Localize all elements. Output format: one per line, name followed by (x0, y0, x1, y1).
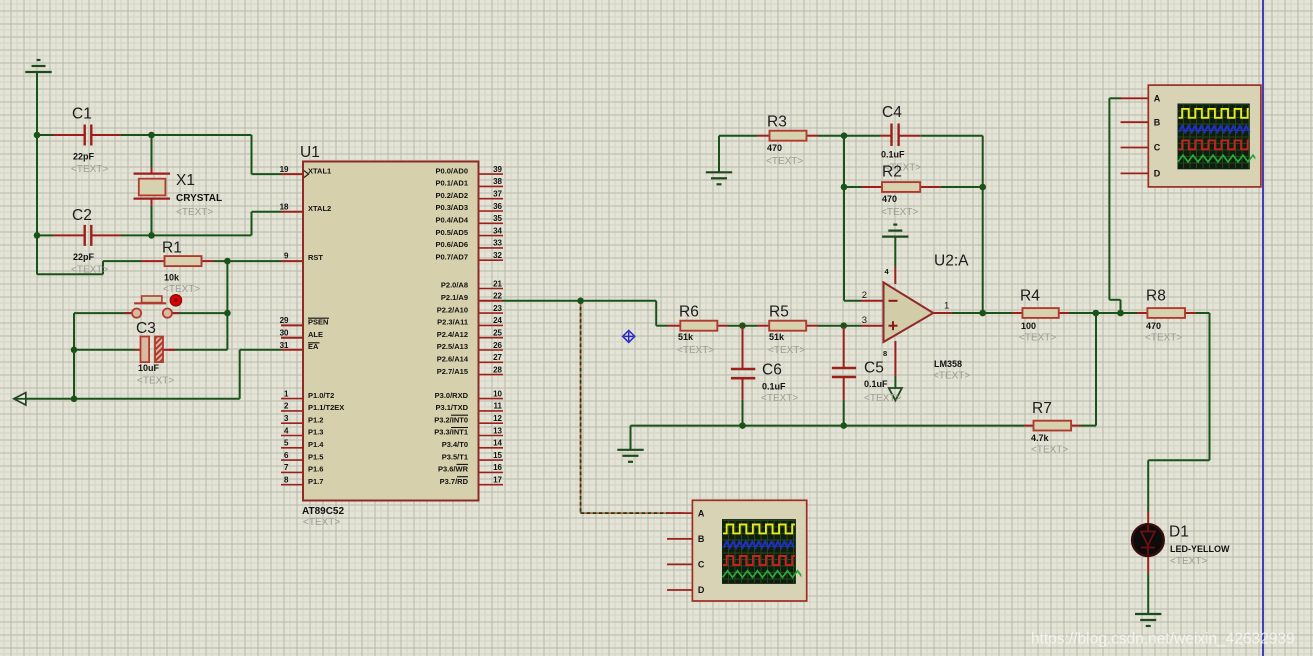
svg-text:<TEXT>: <TEXT> (1170, 556, 1207, 567)
svg-text:5: 5 (284, 439, 289, 448)
svg-text:C3: C3 (136, 320, 156, 337)
svg-text:10k: 10k (164, 273, 180, 283)
svg-text:<TEXT>: <TEXT> (1019, 333, 1056, 344)
svg-text:P0.4/AD4: P0.4/AD4 (435, 216, 468, 225)
svg-text:C1: C1 (72, 106, 92, 123)
svg-text:<TEXT>: <TEXT> (303, 517, 340, 528)
svg-text:B: B (698, 534, 705, 544)
svg-text:P3.5/T1: P3.5/T1 (442, 452, 468, 461)
svg-text:<TEXT>: <TEXT> (1145, 333, 1182, 344)
svg-text:470: 470 (1146, 321, 1161, 331)
svg-text:RST: RST (308, 253, 323, 262)
svg-text:1: 1 (944, 301, 949, 312)
svg-text:P2.4/A12: P2.4/A12 (437, 330, 468, 339)
svg-text:P2.7/A15: P2.7/A15 (437, 367, 468, 376)
svg-text:P2.5/A13: P2.5/A13 (437, 342, 468, 351)
svg-text:2: 2 (284, 402, 289, 411)
svg-text:C6: C6 (762, 362, 782, 379)
svg-text:34: 34 (493, 226, 502, 235)
svg-text:0.1uF: 0.1uF (864, 379, 888, 389)
svg-text:R5: R5 (769, 304, 789, 321)
svg-text:17: 17 (493, 476, 502, 485)
svg-text:P3.0/RXD: P3.0/RXD (435, 391, 469, 400)
svg-text:100: 100 (1021, 321, 1036, 331)
svg-text:P1.4: P1.4 (308, 440, 324, 449)
svg-text:C2: C2 (72, 207, 92, 224)
svg-text:EA: EA (308, 342, 319, 351)
svg-text:19: 19 (280, 165, 289, 174)
svg-text:<TEXT>: <TEXT> (677, 345, 714, 356)
svg-text:P3.6/WR: P3.6/WR (438, 465, 469, 474)
svg-text:36: 36 (493, 202, 502, 211)
svg-text:P1.6: P1.6 (308, 465, 323, 474)
svg-text:ALE: ALE (308, 330, 323, 339)
svg-text:R2: R2 (882, 164, 902, 181)
svg-text:R6: R6 (679, 304, 699, 321)
svg-text:<TEXT>: <TEXT> (766, 156, 803, 167)
svg-text:6: 6 (284, 451, 289, 460)
svg-text:33: 33 (493, 239, 502, 248)
svg-text:4.7k: 4.7k (1031, 433, 1050, 443)
svg-text:<TEXT>: <TEXT> (71, 265, 108, 276)
svg-text:XTAL2: XTAL2 (308, 204, 331, 213)
svg-text:35: 35 (493, 214, 502, 223)
svg-text:8: 8 (284, 476, 289, 485)
svg-text:P0.6/AD6: P0.6/AD6 (435, 240, 468, 249)
svg-text:26: 26 (493, 341, 502, 350)
svg-text:39: 39 (493, 165, 502, 174)
svg-text:21: 21 (493, 279, 502, 288)
svg-text:3: 3 (862, 315, 867, 326)
svg-text:<TEXT>: <TEXT> (933, 371, 970, 382)
svg-text:28: 28 (493, 365, 502, 374)
svg-text:XTAL1: XTAL1 (308, 166, 331, 175)
svg-text:18: 18 (280, 203, 289, 212)
svg-text:24: 24 (493, 316, 502, 325)
svg-text:https://blog.csdn.net/weixin_4: https://blog.csdn.net/weixin_42632939 (1031, 631, 1295, 648)
svg-text:R1: R1 (162, 240, 182, 257)
svg-text:13: 13 (493, 426, 502, 435)
svg-text:51k: 51k (769, 332, 785, 342)
svg-text:U1: U1 (300, 144, 320, 161)
svg-text:<TEXT>: <TEXT> (864, 393, 901, 404)
svg-text:P0.0/AD0: P0.0/AD0 (435, 166, 468, 175)
svg-text:AT89C52: AT89C52 (302, 506, 344, 517)
svg-text:C5: C5 (864, 360, 884, 377)
svg-text:P1.7: P1.7 (308, 477, 323, 486)
svg-text:<TEXT>: <TEXT> (881, 207, 918, 218)
svg-text:10uF: 10uF (138, 363, 160, 373)
svg-text:B: B (1154, 117, 1161, 127)
svg-text:4: 4 (284, 426, 289, 435)
svg-text:P0.2/AD2: P0.2/AD2 (435, 191, 468, 200)
svg-text:22pF: 22pF (73, 152, 95, 162)
svg-text:P2.6/A14: P2.6/A14 (437, 355, 469, 364)
svg-text:37: 37 (493, 190, 502, 199)
svg-text:PSEN: PSEN (308, 318, 328, 327)
svg-text:14: 14 (493, 439, 502, 448)
svg-text:9: 9 (284, 252, 289, 261)
svg-text:P1.0/T2: P1.0/T2 (308, 391, 334, 400)
svg-text:7: 7 (284, 463, 289, 472)
svg-text:470: 470 (767, 143, 782, 153)
svg-text:10: 10 (493, 389, 502, 398)
svg-text:2: 2 (862, 290, 867, 301)
svg-text:0.1uF: 0.1uF (881, 150, 905, 160)
svg-text:22pF: 22pF (73, 252, 95, 262)
svg-text:C4: C4 (882, 104, 902, 121)
svg-text:3: 3 (284, 414, 289, 423)
svg-text:P2.1/A9: P2.1/A9 (441, 293, 468, 302)
svg-text:P0.5/AD5: P0.5/AD5 (435, 228, 468, 237)
svg-text:0.1uF: 0.1uF (762, 382, 786, 392)
svg-text:A: A (698, 508, 705, 518)
svg-text:P1.1/T2EX: P1.1/T2EX (308, 403, 344, 412)
svg-text:51k: 51k (678, 332, 694, 342)
svg-text:<TEXT>: <TEXT> (163, 284, 200, 295)
svg-text:27: 27 (493, 353, 502, 362)
svg-text:P1.3: P1.3 (308, 428, 323, 437)
svg-text:R4: R4 (1020, 288, 1040, 305)
svg-text:P1.5: P1.5 (308, 452, 323, 461)
svg-text:11: 11 (494, 402, 503, 411)
svg-text:A: A (1154, 94, 1161, 104)
svg-text:38: 38 (493, 177, 502, 186)
svg-text:<TEXT>: <TEXT> (71, 164, 108, 175)
svg-text:<TEXT>: <TEXT> (761, 393, 798, 404)
svg-text:15: 15 (493, 451, 502, 460)
svg-text:D: D (698, 585, 705, 595)
svg-text:22: 22 (493, 292, 502, 301)
svg-text:23: 23 (493, 304, 502, 313)
svg-text:8: 8 (883, 349, 887, 358)
svg-text:29: 29 (280, 316, 289, 325)
svg-text:32: 32 (493, 251, 502, 260)
svg-text:LED-YELLOW: LED-YELLOW (1170, 544, 1230, 554)
svg-text:D: D (1154, 169, 1161, 179)
svg-text:P3.3/INT1: P3.3/INT1 (434, 428, 468, 437)
svg-text:16: 16 (493, 463, 502, 472)
svg-text:R7: R7 (1032, 400, 1052, 417)
svg-text:P0.1/AD1: P0.1/AD1 (435, 179, 468, 188)
svg-text:CRYSTAL: CRYSTAL (176, 193, 222, 204)
svg-text:P3.2/INT0: P3.2/INT0 (434, 415, 468, 424)
svg-text:LM358: LM358 (934, 359, 962, 369)
svg-text:P3.4/T0: P3.4/T0 (442, 440, 468, 449)
svg-text:P2.3/A11: P2.3/A11 (437, 318, 468, 327)
svg-text:D1: D1 (1169, 524, 1189, 541)
svg-text:P3.1/TXD: P3.1/TXD (435, 403, 468, 412)
svg-text:1: 1 (284, 389, 289, 398)
svg-text:31: 31 (280, 341, 289, 350)
svg-text:C: C (698, 560, 705, 570)
svg-text:470: 470 (882, 194, 897, 204)
svg-text:U2:A: U2:A (934, 253, 969, 270)
svg-text:P1.2: P1.2 (308, 415, 323, 424)
svg-text:30: 30 (280, 329, 289, 338)
svg-text:25: 25 (493, 329, 502, 338)
svg-text:C: C (1154, 143, 1161, 153)
svg-text:P3.7/RD: P3.7/RD (440, 477, 469, 486)
svg-text:P2.2/A10: P2.2/A10 (437, 305, 468, 314)
svg-text:12: 12 (493, 414, 502, 423)
svg-text:<TEXT>: <TEXT> (1031, 445, 1068, 456)
svg-text:X1: X1 (176, 172, 195, 189)
svg-text:P0.7/AD7: P0.7/AD7 (435, 252, 468, 261)
svg-text:R3: R3 (767, 114, 787, 131)
svg-text:P2.0/A8: P2.0/A8 (441, 281, 468, 290)
svg-text:P0.3/AD3: P0.3/AD3 (435, 203, 468, 212)
svg-text:R8: R8 (1146, 288, 1166, 305)
svg-text:<TEXT>: <TEXT> (768, 345, 805, 356)
svg-text:<TEXT>: <TEXT> (176, 207, 213, 218)
svg-text:<TEXT>: <TEXT> (137, 376, 174, 387)
